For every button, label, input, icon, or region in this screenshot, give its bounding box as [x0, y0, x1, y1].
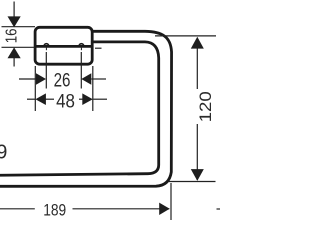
svg-text:26: 26 [54, 69, 71, 91]
svg-text:16: 16 [4, 29, 21, 44]
svg-text:189: 189 [43, 201, 66, 220]
svg-text:120: 120 [196, 91, 215, 122]
svg-text:9: 9 [0, 142, 7, 164]
svg-text:48: 48 [56, 91, 75, 113]
